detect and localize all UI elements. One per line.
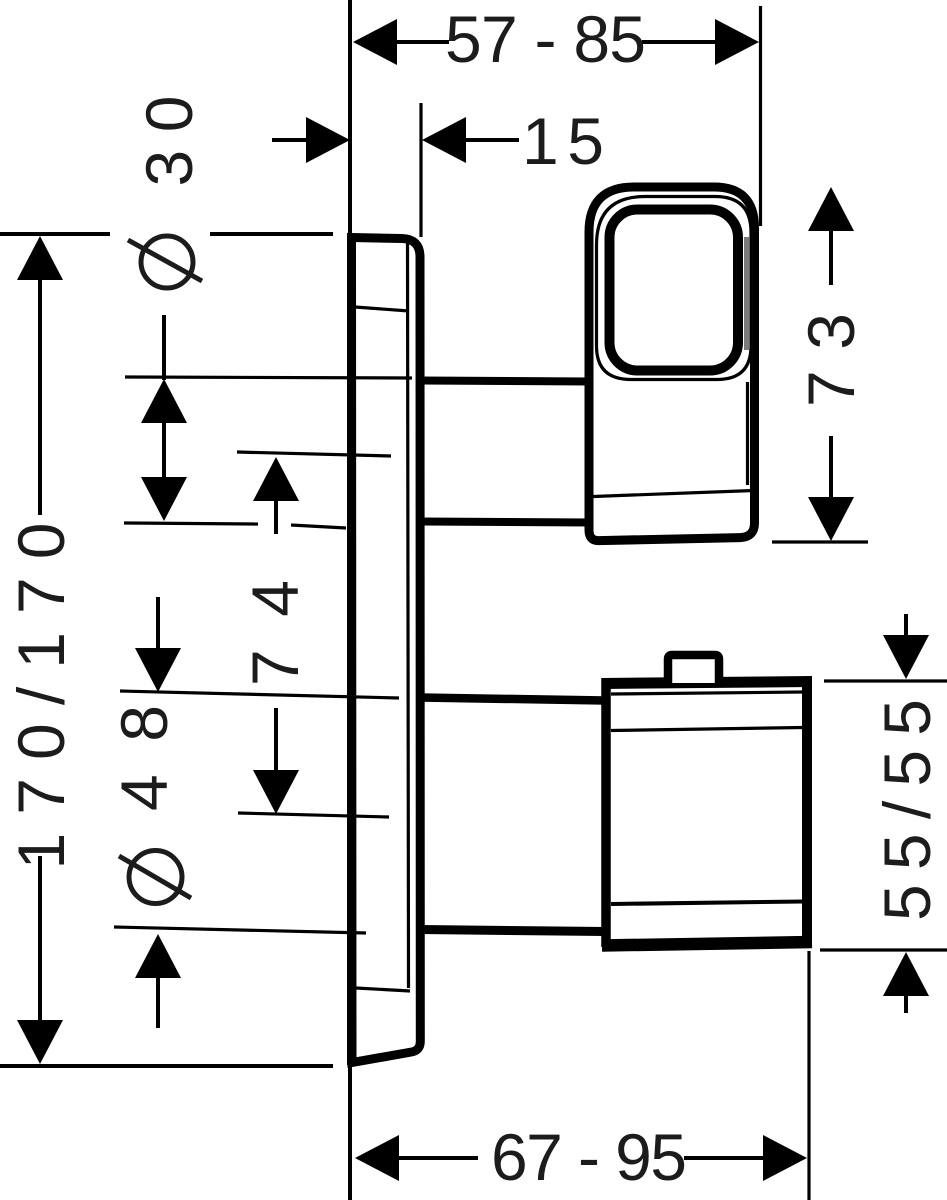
dim 170/170 lower shaft bbox=[38, 856, 42, 1025]
dim D48 tail bbox=[156, 976, 160, 1028]
dim 57-85 right line bbox=[642, 40, 719, 44]
knob upper seam bbox=[611, 728, 803, 731]
dim 15 extension line bbox=[419, 103, 422, 237]
plate back edge bbox=[347, 236, 356, 1065]
dim 170/170 bottom extension line bbox=[0, 1064, 333, 1068]
label D48 diameter symbol bbox=[129, 851, 182, 904]
knob top inner line bbox=[611, 692, 803, 694]
svg-text:74: 74 bbox=[238, 580, 312, 686]
dim 15 left tail bbox=[272, 138, 307, 142]
dim 74 bottom extension line bbox=[238, 813, 389, 817]
dim 73 text bbox=[794, 313, 868, 407]
knob lower seam bbox=[611, 902, 803, 905]
dim D48 up arrow bbox=[135, 934, 181, 978]
dim D48 bottom extension line bbox=[114, 927, 366, 933]
dim 74 upper shaft bbox=[274, 499, 278, 534]
dim D48 top extension line bbox=[120, 691, 399, 698]
dim 170/170 upper shaft bbox=[38, 278, 42, 515]
svg-text:48: 48 bbox=[107, 705, 181, 811]
dim D48 leader bbox=[156, 597, 160, 650]
lever shading band bbox=[744, 237, 749, 350]
dim D30 up arrow bbox=[141, 379, 187, 423]
dim D48 down arrow bbox=[135, 648, 181, 692]
svg-text:67 - 95: 67 - 95 bbox=[491, 1120, 687, 1194]
dim 67-95 left line bbox=[397, 1156, 478, 1160]
dim 170/170 top extension line bbox=[0, 232, 110, 236]
dim D30 leader bbox=[162, 315, 166, 380]
dim 15 right tail bbox=[466, 138, 519, 142]
label D30 diameter symbol bbox=[141, 236, 193, 288]
bottom stem edge (upper) bbox=[420, 698, 605, 701]
dim 55/55 down arrow bbox=[883, 635, 929, 679]
svg-text:57 - 85: 57 - 85 bbox=[445, 2, 646, 76]
dim 57-85 extension line right bbox=[759, 6, 762, 226]
lever handle outline bbox=[589, 187, 755, 541]
dim 73 lower shaft bbox=[829, 436, 833, 503]
dim D30 down arrow bbox=[141, 477, 187, 521]
dim 67-95 extension line right bbox=[807, 951, 810, 1200]
plate top seam bbox=[355, 307, 409, 311]
dim 55/55 up arrow bbox=[883, 952, 929, 996]
dim 55/55 top extension line bbox=[824, 679, 947, 682]
top stem sleeve edge (upper) bbox=[420, 381, 589, 382]
dim 73 up arrow bbox=[808, 187, 854, 231]
knob top tab bbox=[668, 655, 719, 683]
bottom stem edge (lower) bbox=[420, 930, 605, 932]
svg-text:15: 15 bbox=[522, 104, 604, 178]
svg-text:170/170: 170/170 bbox=[4, 523, 78, 870]
dim 57-85 left line bbox=[395, 40, 449, 44]
dim 55/55 leader bbox=[904, 614, 908, 640]
dim 74 lower shaft bbox=[274, 708, 278, 772]
lever inner face line bbox=[597, 197, 752, 380]
escutcheon plate (side view) bbox=[352, 238, 421, 1063]
wall line bbox=[348, 0, 352, 1200]
dim 57-85 left arrow bbox=[353, 19, 397, 65]
dim 55/55 bottom extension line bbox=[820, 948, 947, 951]
svg-text:55/55: 55/55 bbox=[870, 699, 944, 921]
dim 15 right arrow bbox=[422, 117, 466, 163]
dim 67-95 right line bbox=[684, 1156, 767, 1160]
dim 73 down arrow bbox=[808, 497, 854, 541]
dim 170/170 top arrow bbox=[17, 236, 63, 280]
dim 55/55 tail bbox=[904, 994, 908, 1013]
knob right edge bbox=[802, 677, 812, 945]
top stem sleeve edge (lower) bbox=[420, 522, 590, 523]
dim 67-95 left arrow bbox=[355, 1135, 399, 1181]
plate bottom seam bbox=[356, 988, 410, 991]
dim 15 left arrow bbox=[306, 117, 350, 163]
svg-text:73: 73 bbox=[794, 313, 868, 407]
dim D30 top extension line bbox=[125, 377, 412, 378]
lever window ring bbox=[610, 210, 739, 371]
dim 55/55 text bbox=[870, 699, 944, 921]
knob left edge bbox=[601, 678, 611, 947]
lever taper line bbox=[746, 382, 749, 485]
dim 74 top extension line bbox=[237, 452, 391, 456]
thermostat knob body fill bbox=[606, 681, 808, 946]
knob top edge bbox=[602, 682, 812, 684]
label D30 text bbox=[132, 96, 206, 187]
dim 73 upper shaft bbox=[829, 229, 833, 285]
dim D30 bottom extension line bbox=[124, 523, 258, 524]
label D48 text bbox=[107, 705, 181, 811]
dim 170/170 bottom arrow bbox=[17, 1020, 63, 1064]
knob bottom edge bbox=[602, 942, 812, 946]
dim 170/170 text bbox=[4, 523, 78, 870]
dim 57-85 right arrow bbox=[715, 19, 759, 65]
dim 74 up arrow bbox=[253, 457, 299, 501]
dim 67-95 right arrow bbox=[763, 1135, 807, 1181]
lever bottom seam bbox=[594, 491, 755, 497]
dim D30 shaft bbox=[162, 421, 166, 480]
plate inner edge line bbox=[408, 243, 409, 988]
dim 74 down arrow bbox=[253, 770, 299, 814]
dim 74 text bbox=[238, 580, 312, 686]
svg-text:30: 30 bbox=[132, 96, 206, 187]
dim 73 bottom extension line bbox=[772, 540, 868, 543]
